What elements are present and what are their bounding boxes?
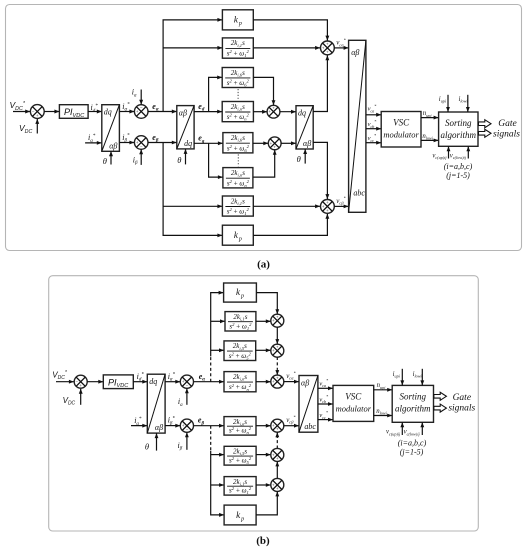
wire VSC to sorting, node n-upi (b) xyxy=(374,389,393,391)
wire Cd to transform T3a xyxy=(280,111,296,113)
panel (b) frame xyxy=(49,276,479,531)
wire theta into T1b xyxy=(156,433,158,451)
svg-text:+: + xyxy=(182,379,185,384)
svg-text:+: + xyxy=(276,344,279,349)
wire T4b out a, node vca* (b) xyxy=(318,387,333,389)
svg-text:+: + xyxy=(326,41,329,46)
wire S2a to T4a, node vc-alpha* xyxy=(334,47,348,49)
wire ia up into M1b xyxy=(186,388,188,405)
summing junction Cq (a) xyxy=(268,137,281,150)
svg-text:p: p xyxy=(238,237,242,243)
wire T3a top output up into S2a xyxy=(313,55,327,111)
wire branch tee to resonant1 row (b) xyxy=(211,320,225,322)
wire resonant5 bottom out into Cb5 left xyxy=(256,454,271,456)
svg-text:abc: abc xyxy=(304,422,316,431)
svg-text:+: + xyxy=(270,141,273,146)
wire M1b to resonant-n block, node e-alpha (b) xyxy=(194,381,225,383)
wire resonant-n q out to summing Cq bottom xyxy=(253,150,275,177)
svg-text:p: p xyxy=(240,516,244,522)
wire iq* into T1b xyxy=(131,425,147,427)
wire kp bottom row up into Cb6 bottom xyxy=(256,491,277,515)
svg-text:dq: dq xyxy=(104,108,112,117)
transform block T3a dq to alpha-beta (mid) xyxy=(296,106,313,149)
wire T2a to resonant 6b block, node eq xyxy=(194,142,223,144)
block kp bottom (a) xyxy=(222,225,253,245)
wire Vdc* to summing junction S1a xyxy=(13,111,30,113)
svg-text:algorithm: algorithm xyxy=(395,404,431,414)
svg-text:θ: θ xyxy=(103,156,107,166)
wire resonant-n d out to summing Cd left xyxy=(253,111,267,113)
svg-text:+: + xyxy=(136,140,139,145)
svg-text:+: + xyxy=(272,379,275,384)
summing junction Cb5 xyxy=(271,448,284,461)
wire e-beta branch tee to resonant 1b row (a) xyxy=(163,205,222,207)
wire VSC to sorting, node n-upi (a) xyxy=(421,117,439,119)
svg-text:(i=a,b,c): (i=a,b,c) xyxy=(444,162,473,171)
wire theta into T2a xyxy=(185,149,187,165)
svg-text:θ: θ xyxy=(297,154,301,164)
multiplier M2b xyxy=(180,419,193,432)
wire i-upi down into sorting (a) xyxy=(447,95,449,112)
transform block T4a alpha-beta to abc xyxy=(349,40,366,212)
wire Cb5 dashed up into Cb4 bottom xyxy=(276,438,278,449)
wire T4b out b, node vcb* (b) xyxy=(318,403,333,405)
block Sorting algorithm (a) xyxy=(439,112,478,146)
svg-text:(i=a,b,c): (i=a,b,c) xyxy=(398,438,427,447)
wire PI-VDC to transform T1a, node id* xyxy=(88,111,102,113)
svg-text:+: + xyxy=(276,427,279,432)
svg-text:VSC: VSC xyxy=(345,392,362,402)
wire resonant5 out into Cb2 left xyxy=(256,349,271,351)
wire resonant-n out into Cb3 left xyxy=(256,381,271,383)
wire kp bottom row into S3a from below xyxy=(253,214,327,236)
wire i-beta up into M2b xyxy=(186,432,188,450)
svg-text:+: + xyxy=(276,375,279,380)
wire T4b out c, node vcc* (b) xyxy=(318,419,333,421)
svg-text:+: + xyxy=(79,383,82,388)
block resonant 2k_i6 (q-axis) (a) xyxy=(223,133,253,153)
wire iq* into T1a xyxy=(85,142,102,144)
wire T4a out a, node vca* xyxy=(366,114,381,116)
wire Cb1 down into Cb2 top xyxy=(276,327,278,344)
svg-text:θ: θ xyxy=(177,155,181,165)
wire Cb6 up into Cb5 bottom xyxy=(276,461,278,478)
wire ia down into M1a xyxy=(140,90,142,105)
wire e-beta branch solid down to kp row (b) xyxy=(211,451,224,515)
wire vc(up)ij up into sorting (b) xyxy=(401,422,403,435)
svg-text:αβ: αβ xyxy=(179,109,187,118)
block VSC modulator (b) xyxy=(333,385,374,421)
svg-text:modulator: modulator xyxy=(383,130,419,140)
svg-text:+: + xyxy=(322,204,325,209)
svg-text:(a): (a) xyxy=(257,259,270,271)
wire theta into T1a xyxy=(110,151,112,164)
gate signals double arrow (b) xyxy=(434,392,447,400)
block resonant 2k_in (d-axis) (a) xyxy=(222,102,253,122)
wire PI-VDC to T1b, node id* (b) xyxy=(133,381,147,383)
wire vc(up)ij up into sorting (a) xyxy=(448,146,450,158)
svg-text:signals: signals xyxy=(448,404,475,414)
wire Vdc up into S1b xyxy=(80,389,82,405)
block resonant 2k_i5 top (b) xyxy=(224,341,256,361)
summing junction S1a xyxy=(30,105,44,119)
wire resonant-n bottom out into Cb4 left xyxy=(256,425,271,427)
svg-text:+: + xyxy=(182,423,185,428)
wire branch tee to resonant1b row (b) xyxy=(211,484,224,486)
svg-text:(b): (b) xyxy=(256,535,270,547)
wire VSC to sorting, node n-lowi (b) xyxy=(374,415,393,417)
svg-text:+: + xyxy=(272,452,275,457)
block PI-VDC (a) xyxy=(59,105,88,119)
panel (a) frame xyxy=(6,5,522,251)
transform block T4b alpha-beta to abc xyxy=(299,376,318,433)
svg-text:Gate: Gate xyxy=(453,393,471,403)
svg-text:+: + xyxy=(136,109,139,114)
svg-text:+: + xyxy=(326,208,329,213)
multiplier M1b xyxy=(180,375,193,388)
svg-text:+: + xyxy=(272,348,275,353)
wire M2b to resonant-n block, node e-beta (b) xyxy=(194,425,225,427)
summing junction Cb4 xyxy=(271,419,284,432)
block resonant 2k_i6 (d-axis) (a) xyxy=(222,68,253,88)
svg-text:−: − xyxy=(140,105,143,110)
wire e-alpha branch solid up to kp row (b) xyxy=(211,293,224,357)
wire resonant6 q out to summing Cq left xyxy=(253,142,268,144)
svg-text:algorithm: algorithm xyxy=(441,130,477,140)
svg-text:+: + xyxy=(36,113,39,118)
multiplier M2a xyxy=(134,136,148,150)
wire kp top row into S2a from above xyxy=(253,20,327,41)
wire i-lowi down into sorting (b) xyxy=(421,369,423,386)
svg-text:+: + xyxy=(272,482,275,487)
wire Vdc* to summing junction S1b xyxy=(56,381,74,383)
dotted continuation between q-axis resonant blocks xyxy=(237,154,239,166)
wire T1b to multiplier M1b, node i-alpha* (b) xyxy=(165,381,180,383)
wire T4a out b, node vcb* xyxy=(366,128,381,130)
block resonant 2k_in bottom (b) xyxy=(224,417,256,436)
svg-text:θ: θ xyxy=(145,441,149,451)
wire T1b to multiplier M2b, node i-beta* (b) xyxy=(165,425,180,427)
svg-text:−: − xyxy=(186,427,189,432)
summing junction Cb1 xyxy=(271,314,284,327)
wire ed branch up to resonant 6 row xyxy=(209,77,223,111)
wire M1a to transform T2a, node e-alpha xyxy=(148,111,177,113)
wire kp out down into Cb1 top xyxy=(256,293,277,315)
block PI-VDC (b) xyxy=(103,375,133,389)
svg-text:−: − xyxy=(186,383,189,388)
summing junction S3a xyxy=(321,200,335,214)
wire S1b to PI-VDC (b) xyxy=(87,381,103,383)
svg-text:αβ: αβ xyxy=(301,379,309,388)
svg-text:αβ: αβ xyxy=(303,139,311,148)
svg-text:dq: dq xyxy=(184,139,192,148)
multiplier M1a xyxy=(134,105,148,119)
svg-text:αβ: αβ xyxy=(109,141,117,150)
dotted continuation between d-axis resonant blocks xyxy=(237,89,239,100)
svg-text:p: p xyxy=(240,294,244,300)
wire resonant1 out into Cb1 left xyxy=(256,320,271,322)
svg-text:+: + xyxy=(272,423,275,428)
transform block T1b dq to alpha-beta xyxy=(147,374,165,433)
svg-text:+: + xyxy=(268,109,271,114)
wire resonant1 row into S2a left xyxy=(253,47,320,49)
svg-text:VSC: VSC xyxy=(393,118,410,128)
block resonant 2k_i1 top (b) xyxy=(225,312,256,331)
wire S1a to PI-VDC xyxy=(44,111,59,113)
svg-text:+: + xyxy=(276,486,279,491)
wire branch tee to resonant5b row (b) xyxy=(211,454,224,456)
wire e-alpha branch up to kp and r1 rows (a) xyxy=(163,20,222,112)
wire Vdc up into S1a xyxy=(36,119,38,134)
wire T1a to multiplier M2a, node i-beta* xyxy=(119,142,134,144)
svg-text:−: − xyxy=(32,109,35,114)
wire theta into T3a xyxy=(304,149,306,164)
wire Cb4 to T4b, node vc-beta* (b) xyxy=(284,425,299,427)
svg-text:+: + xyxy=(326,49,329,54)
block resonant 2k_i1 s/(s2+w12) top (a) xyxy=(222,38,253,58)
transform block T2a alpha-beta to dq xyxy=(177,106,194,149)
wire VSC to sorting, node n-lowi (a) xyxy=(421,139,439,141)
block resonant 2k_in (q-axis) (a) xyxy=(223,168,253,188)
summing junction Cb6 xyxy=(271,478,284,491)
block Sorting algorithm (b) xyxy=(392,385,433,422)
wire eq branch down to resonant nb row xyxy=(209,143,223,177)
svg-text:+: + xyxy=(326,200,329,205)
wire Cq to transform T3a xyxy=(281,142,296,144)
wire S3a to T4a, node vc-beta* xyxy=(334,205,348,207)
summing junction S2a xyxy=(321,41,335,55)
gate signals double arrow (a) xyxy=(479,120,492,128)
wire T2a to resonant n block, node ed xyxy=(194,111,222,113)
svg-text:−: − xyxy=(140,144,143,149)
svg-text:dq: dq xyxy=(298,109,306,118)
wire resonant6 d out to summing Cd top xyxy=(253,77,273,105)
wire i-upi down into sorting (b) xyxy=(401,369,403,386)
block kp top (b) xyxy=(224,283,257,302)
summing junction Cd (a) xyxy=(267,105,280,118)
svg-text:signals: signals xyxy=(493,130,520,140)
svg-text:dq: dq xyxy=(149,377,157,386)
svg-text:+: + xyxy=(273,144,276,149)
wire resonant1b row into S3a left xyxy=(253,205,320,207)
wire M2a to T2a, node e-beta xyxy=(148,142,177,144)
svg-text:modulator: modulator xyxy=(336,404,372,414)
block resonant 2k_i1 bottom (b) xyxy=(224,477,256,496)
svg-text:Sorting: Sorting xyxy=(445,118,472,128)
wire Cb3 to T4b, node vc-alpha* (b) xyxy=(284,381,299,383)
wire resonant1 bottom out into Cb6 left xyxy=(256,484,271,486)
svg-text:αβ: αβ xyxy=(155,423,163,432)
svg-text:+: + xyxy=(272,318,275,323)
block kp top (a) xyxy=(222,10,253,30)
block resonant 2k_i5 bottom (b) xyxy=(224,446,256,465)
wire i-lowi down into sorting (a) xyxy=(467,95,469,112)
svg-text:+: + xyxy=(276,456,279,461)
svg-text:(j=1-5): (j=1-5) xyxy=(400,447,424,456)
block VSC modulator (a) xyxy=(381,112,421,148)
transform block T1a dq to alpha-beta xyxy=(102,105,120,152)
svg-text:p: p xyxy=(238,21,242,27)
block resonant 2k_in top (b) xyxy=(224,372,256,392)
block kp bottom (b) xyxy=(224,505,256,525)
svg-text:abc: abc xyxy=(353,189,365,198)
wire e-alpha dashed branch up (b) xyxy=(210,356,212,381)
wire e-alpha branch tee to resonant 1 row (a) xyxy=(163,47,222,49)
wire i-beta up into M2a xyxy=(140,149,142,165)
wire e-beta dashed branch down (b) xyxy=(210,426,212,451)
wire vc(low)ij up into sorting (b) xyxy=(421,422,423,435)
wire vc(low)ij up into sorting (a) xyxy=(467,146,469,158)
wire Cb2 dashed down into Cb3 top xyxy=(276,357,278,369)
wire T3a bottom output down into S3a xyxy=(313,142,327,199)
svg-text:Gate: Gate xyxy=(498,119,516,129)
wire T1a to multiplier M1a, node i-alpha* xyxy=(119,111,134,113)
wire e-beta branch down to r1b and kpb rows (a) xyxy=(163,143,222,236)
svg-text:(j=1-5): (j=1-5) xyxy=(446,171,470,180)
summing junction Cb2 xyxy=(271,344,284,357)
summing junction S1b xyxy=(74,375,87,388)
wire branch tee to resonant5 row (b) xyxy=(211,349,224,351)
svg-text:−: − xyxy=(75,379,78,384)
svg-text:+: + xyxy=(276,314,279,319)
svg-text:+: + xyxy=(322,45,325,50)
svg-text:+: + xyxy=(272,106,275,111)
svg-text:Sorting: Sorting xyxy=(400,392,427,402)
svg-text:αβ: αβ xyxy=(351,48,359,57)
wire T4a out c, node vcc* xyxy=(366,142,381,144)
summing junction Cb3 xyxy=(271,375,284,388)
block resonant 2k_i1 bottom (a) xyxy=(222,196,253,216)
